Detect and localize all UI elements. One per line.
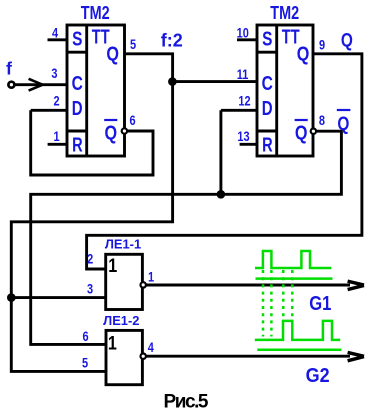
svg-text:R: R bbox=[72, 133, 83, 156]
wire pin 2 D U1 bbox=[31, 109, 67, 112]
svg-text:1: 1 bbox=[53, 129, 59, 144]
svg-text:5: 5 bbox=[82, 355, 88, 370]
wire pin 12 D U2 bbox=[221, 109, 257, 112]
svg-text:TM2: TM2 bbox=[270, 2, 299, 23]
wire pin 8 Qbar U2 to Qbar rail bbox=[31, 131, 342, 344]
waveform G2 trace bbox=[255, 321, 340, 340]
wire output G2 bbox=[146, 355, 350, 358]
svg-text:S: S bbox=[262, 27, 272, 49]
overline output net Qbar bbox=[337, 109, 351, 111]
svg-text:6: 6 bbox=[129, 113, 135, 128]
waveform G1 underline bbox=[256, 277, 333, 280]
inversion bubble pin 8 U2 bbox=[311, 129, 316, 134]
wire output G1 bbox=[146, 284, 350, 287]
svg-text:4: 4 bbox=[52, 25, 58, 40]
svg-text:Q: Q bbox=[297, 43, 310, 65]
dashed timing line 1 bbox=[262, 270, 265, 337]
svg-text:11: 11 bbox=[237, 67, 249, 82]
flip-flop U1 R divider bbox=[67, 130, 87, 133]
svg-text:9: 9 bbox=[319, 38, 325, 53]
gate U4 (LE1-2) box bbox=[106, 330, 142, 384]
node dot left rail junction bbox=[7, 293, 16, 302]
svg-text:TM2: TM2 bbox=[81, 2, 110, 23]
svg-text:f:2: f:2 bbox=[161, 31, 183, 51]
svg-text:Q: Q bbox=[295, 122, 308, 144]
flip-flop U1 (TM2) box bbox=[67, 25, 125, 156]
svg-text:C: C bbox=[262, 72, 273, 94]
flip-flop U2 inner divider bbox=[275, 25, 278, 156]
svg-text:Рис.5: Рис.5 bbox=[164, 391, 209, 412]
svg-text:1: 1 bbox=[148, 269, 154, 284]
wire f:2 rail down to pin 5 gate U4 bbox=[11, 298, 106, 372]
inversion bubble output pin 1 gate U3 bbox=[141, 282, 146, 287]
dashed timing line 2 bbox=[270, 270, 273, 337]
inversion bubble pin 6 U1 bbox=[122, 128, 127, 133]
flip-flop U2 R divider bbox=[257, 130, 277, 133]
dashed timing line 4 bbox=[291, 270, 294, 319]
arrow on f wire bbox=[29, 79, 43, 91]
overline Qbar U2 bbox=[295, 119, 308, 121]
node dot f:2 junction bbox=[168, 77, 177, 86]
node dot Qbar rail junction bbox=[217, 190, 226, 199]
wire node f:2 to pin 11 C U2 bbox=[173, 80, 257, 83]
svg-text:1: 1 bbox=[108, 255, 117, 277]
waveform G2 underline bbox=[257, 348, 341, 351]
svg-text:f: f bbox=[6, 59, 12, 79]
svg-text:Q: Q bbox=[106, 43, 119, 65]
wire pin 5 Q U1 to node f:2 bbox=[125, 54, 173, 82]
wire pin 10 S U2 bbox=[237, 38, 257, 41]
svg-text:D: D bbox=[72, 97, 83, 120]
svg-text:G2: G2 bbox=[306, 365, 330, 387]
wire Qbar rail up to pin 12 D U2 bbox=[219, 110, 222, 194]
svg-text:3: 3 bbox=[51, 66, 57, 81]
svg-text:D: D bbox=[262, 97, 273, 120]
svg-text:R: R bbox=[262, 133, 273, 156]
flip-flop U2 S divider bbox=[257, 51, 277, 54]
wire pin 1 R U1 bbox=[48, 143, 67, 146]
svg-text:6: 6 bbox=[83, 329, 89, 344]
svg-text:ЛЕ1-2: ЛЕ1-2 bbox=[103, 313, 139, 328]
wire f input to pin 3 C U1 bbox=[14, 83, 67, 86]
svg-text:5: 5 bbox=[130, 37, 136, 52]
inversion bubble output pin 4 gate U4 bbox=[141, 354, 146, 359]
svg-text:12: 12 bbox=[238, 94, 250, 109]
wire pin 4 S U1 bbox=[48, 38, 68, 41]
input terminal f bbox=[8, 82, 14, 88]
svg-text:S: S bbox=[72, 27, 82, 49]
wire pin 6 Qbar U1 feedback to pin 2 D U1 bbox=[31, 110, 153, 175]
arrowhead G2 bbox=[348, 352, 364, 360]
wire f:2 rail to pin 3 gate U3 bbox=[11, 296, 105, 299]
flip-flop U2 (TM2) box bbox=[257, 25, 313, 156]
svg-text:13: 13 bbox=[237, 129, 249, 144]
flip-flop U1 inner divider bbox=[85, 25, 88, 156]
svg-text:Q: Q bbox=[104, 122, 117, 144]
flip-flop U1 S divider bbox=[67, 51, 87, 54]
svg-text:2: 2 bbox=[53, 94, 59, 109]
svg-text:3: 3 bbox=[87, 281, 93, 296]
svg-text:2: 2 bbox=[87, 251, 93, 266]
wire pin 13 R U2 bbox=[240, 143, 257, 146]
svg-text:ЛЕ1-1: ЛЕ1-1 bbox=[105, 236, 141, 251]
dashed timing line 3 bbox=[282, 270, 285, 319]
svg-text:8: 8 bbox=[319, 113, 325, 128]
svg-text:Q: Q bbox=[341, 29, 353, 51]
svg-text:10: 10 bbox=[237, 25, 249, 40]
svg-text:1: 1 bbox=[108, 332, 117, 354]
wire node f:2 down to left rail bbox=[11, 82, 172, 298]
svg-text:4: 4 bbox=[148, 340, 154, 355]
svg-text:Q: Q bbox=[337, 112, 349, 134]
waveform G1 trace bbox=[255, 251, 331, 268]
svg-text:G1: G1 bbox=[309, 292, 331, 315]
gate U3 (LE1-1) box bbox=[106, 254, 143, 309]
svg-text:C: C bbox=[72, 72, 83, 94]
overline Qbar U1 bbox=[104, 119, 117, 121]
wire pin 9 Q U2 to pin 2 gate U3 bbox=[87, 54, 362, 269]
arrowhead G1 bbox=[348, 281, 364, 289]
